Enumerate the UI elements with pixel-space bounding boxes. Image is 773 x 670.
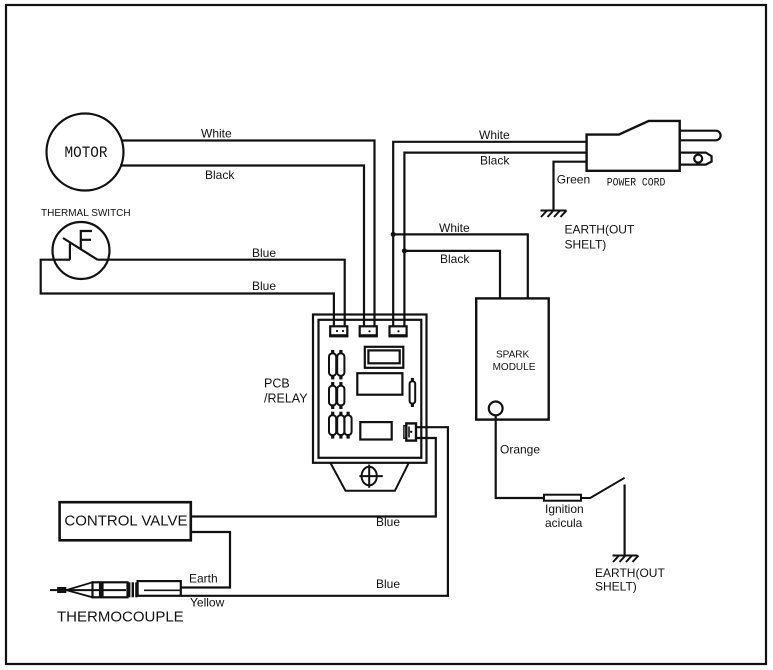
svg-text:Green: Green bbox=[557, 172, 590, 186]
switch blade bbox=[63, 238, 98, 260]
junction dot white bbox=[391, 232, 396, 237]
funnel bbox=[330, 463, 409, 491]
ground (power cord) bbox=[541, 211, 567, 218]
svg-text:SHELT): SHELT) bbox=[595, 580, 637, 594]
svg-text:Blue: Blue bbox=[252, 279, 276, 293]
top prong bbox=[680, 131, 721, 141]
wire blue top bbox=[98, 260, 345, 327]
svg-text:Earth: Earth bbox=[189, 571, 218, 585]
component double rect bbox=[365, 347, 404, 368]
svg-text:White: White bbox=[479, 128, 510, 142]
component bottom rect bbox=[360, 422, 391, 439]
switch post bbox=[69, 244, 71, 260]
connector J3 bbox=[389, 326, 408, 337]
power cord plug bbox=[587, 121, 721, 189]
valve phi symbol bbox=[359, 465, 382, 488]
wire thermo blue bbox=[181, 427, 448, 596]
relay capsule group 1 bbox=[329, 350, 344, 379]
svg-text:SHELT): SHELT) bbox=[565, 237, 607, 251]
svg-text:THERMOCOUPLE: THERMOCOUPLE bbox=[57, 609, 184, 626]
svg-text:EARTH(OUT: EARTH(OUT bbox=[565, 223, 635, 237]
svg-text:MODULE: MODULE bbox=[493, 362, 536, 373]
wire motor black bbox=[120, 166, 364, 328]
junction dot black bbox=[402, 248, 407, 253]
svg-text:POWER CORD: POWER CORD bbox=[607, 177, 666, 189]
motor M bbox=[47, 114, 124, 191]
svg-text:Orange: Orange bbox=[500, 443, 540, 457]
relay capsule group 2 bbox=[329, 382, 344, 409]
svg-text:EARTH(OUT: EARTH(OUT bbox=[595, 566, 665, 580]
wire motor white bbox=[123, 141, 375, 328]
control valve box bbox=[60, 502, 191, 540]
svg-text:White: White bbox=[201, 127, 232, 141]
PCB/RELAY box bbox=[313, 315, 427, 463]
spark module U1 bbox=[476, 298, 549, 419]
svg-text:Black: Black bbox=[480, 154, 510, 168]
svg-text:White: White bbox=[439, 221, 470, 235]
svg-text:SPARK: SPARK bbox=[496, 350, 529, 361]
capsule right bbox=[410, 378, 416, 407]
svg-text:Blue: Blue bbox=[376, 577, 400, 591]
component mid rect bbox=[357, 373, 402, 395]
connector J4 (right) bbox=[404, 423, 416, 440]
wire orange bbox=[496, 415, 544, 498]
wire spark white bbox=[393, 234, 528, 298]
wire valve blue bbox=[191, 438, 436, 517]
svg-text:/RELAY: /RELAY bbox=[264, 391, 308, 405]
svg-text:Ignition: Ignition bbox=[545, 502, 584, 516]
wire earth bbox=[181, 532, 230, 588]
wire green bbox=[554, 162, 587, 210]
wire blue bottom bbox=[41, 260, 334, 327]
svg-text:CONTROL VALVE: CONTROL VALVE bbox=[64, 512, 187, 529]
svg-text:Black: Black bbox=[440, 252, 470, 266]
svg-text:Black: Black bbox=[205, 168, 235, 182]
ignition needle resistor bbox=[544, 495, 581, 501]
svg-text:THERMAL SWITCH: THERMAL SWITCH bbox=[41, 208, 131, 219]
thermocouple probe bbox=[50, 581, 181, 597]
svg-text:Blue: Blue bbox=[376, 515, 400, 529]
wire plug black bbox=[404, 153, 586, 327]
bottom prong bbox=[680, 153, 712, 165]
svg-text:MOTOR: MOTOR bbox=[65, 144, 108, 162]
svg-text:Yellow: Yellow bbox=[190, 596, 225, 610]
thermal element F bbox=[81, 231, 92, 250]
svg-text:PCB: PCB bbox=[264, 376, 290, 390]
wire to ground bbox=[623, 485, 625, 556]
wire spark black bbox=[404, 251, 500, 299]
switch blade (ignition gap) bbox=[581, 478, 625, 498]
connector J2 bbox=[359, 326, 378, 337]
svg-text:Blue: Blue bbox=[252, 246, 276, 260]
ground (ignition) bbox=[613, 556, 639, 563]
wire plug white bbox=[393, 142, 586, 327]
svg-text:acicula: acicula bbox=[545, 516, 583, 530]
connector J1 bbox=[329, 326, 348, 337]
thermal switch bbox=[41, 208, 131, 279]
relay capsule group 3 bbox=[329, 412, 352, 439]
